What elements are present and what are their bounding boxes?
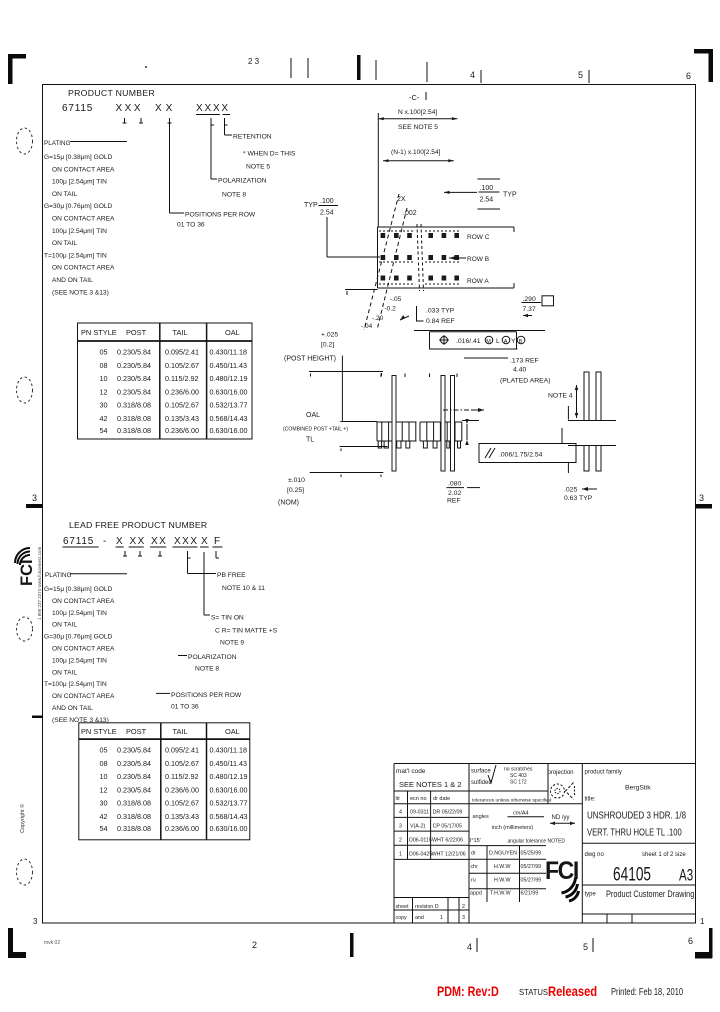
svg-text:PB FREE: PB FREE bbox=[217, 572, 246, 579]
top view dim (N-1) x .100 bbox=[383, 149, 454, 162]
svg-text:PLATING: PLATING bbox=[45, 572, 72, 579]
side detail pins lower bbox=[584, 446, 601, 472]
svg-text:0.568/14.43: 0.568/14.43 bbox=[210, 812, 248, 821]
front view body right group bbox=[420, 422, 462, 441]
svg-text:-C-: -C- bbox=[409, 93, 420, 102]
svg-text:M: M bbox=[486, 339, 491, 345]
svg-text:NOTE 10 & 11: NOTE 10 & 11 bbox=[222, 585, 265, 592]
margin small vertical text bbox=[37, 546, 42, 620]
svg-text:ON TAIL: ON TAIL bbox=[52, 240, 77, 247]
svg-text:appd: appd bbox=[470, 891, 482, 897]
svg-text:2.02: 2.02 bbox=[448, 490, 461, 497]
svg-text:SC 403: SC 403 bbox=[510, 773, 527, 779]
svg-text:.080: .080 bbox=[448, 481, 461, 488]
svg-text:WHT 12/21/06: WHT 12/21/06 bbox=[432, 852, 466, 858]
svg-text:0.236/6.00: 0.236/6.00 bbox=[165, 785, 199, 794]
svg-text:angles: angles bbox=[473, 814, 489, 820]
svg-text:0.230/5.84: 0.230/5.84 bbox=[117, 746, 151, 755]
svg-text:dwg no: dwg no bbox=[585, 852, 605, 858]
svg-text:DR 05/22/09: DR 05/22/09 bbox=[433, 810, 463, 816]
svg-text:0.430/11.18: 0.430/11.18 bbox=[210, 348, 247, 357]
svg-text:05/27/99: 05/27/99 bbox=[521, 878, 542, 884]
svg-text:ND /yy: ND /yy bbox=[552, 815, 570, 821]
svg-text:ON CONTACT AREA: ON CONTACT AREA bbox=[52, 216, 115, 223]
svg-text:product family: product family bbox=[585, 770, 622, 776]
svg-text:POST: POST bbox=[126, 328, 147, 337]
svg-text:D06-0425: D06-0425 bbox=[409, 852, 432, 858]
svg-text:1 800 237 2374 www.fciconnec: 1 800 237 2374 www.fciconnect.com bbox=[37, 546, 42, 620]
svg-text:0.115/2.92: 0.115/2.92 bbox=[165, 772, 198, 781]
svg-text:surface: surface bbox=[471, 769, 491, 775]
svg-text:0.230/5.84: 0.230/5.84 bbox=[117, 348, 151, 357]
svg-text:G=30μ [0.76μm] GOLD: G=30μ [0.76μm] GOLD bbox=[44, 634, 112, 641]
svg-text:ROW B: ROW B bbox=[467, 256, 489, 263]
svg-text:3: 3 bbox=[462, 915, 465, 921]
front view tails right group bbox=[423, 441, 460, 448]
svg-text:T=100μ [2.54μm] TIN: T=100μ [2.54μm] TIN bbox=[44, 252, 107, 259]
svg-text:3: 3 bbox=[399, 824, 402, 830]
svg-text:TAIL: TAIL bbox=[173, 727, 188, 736]
pin row A bbox=[381, 276, 459, 281]
retention leader bbox=[225, 125, 296, 171]
svg-text:PN STYLE: PN STYLE bbox=[81, 328, 117, 337]
svg-text:PLATING: PLATING bbox=[44, 140, 71, 147]
svg-text:7.37: 7.37 bbox=[523, 306, 536, 313]
svg-text:ROW A: ROW A bbox=[467, 278, 489, 285]
bottom extension line bbox=[414, 330, 545, 332]
svg-text:(N-1) x.100[2.54]: (N-1) x.100[2.54] bbox=[391, 149, 441, 156]
svg-text:.290: .290 bbox=[523, 296, 536, 303]
product family cell bbox=[585, 770, 652, 803]
top view pitch typ dim right bbox=[444, 179, 517, 209]
lead free product number heading bbox=[63, 520, 223, 547]
svg-text:100μ [2.54μm] TIN: 100μ [2.54μm] TIN bbox=[52, 228, 107, 235]
svg-text:10: 10 bbox=[100, 374, 108, 383]
svg-text:6: 6 bbox=[688, 936, 693, 946]
table 1 bbox=[78, 323, 253, 439]
svg-text:2.54: 2.54 bbox=[480, 197, 494, 204]
svg-text:+.025: +.025 bbox=[321, 332, 338, 339]
front view left dim labels bbox=[278, 332, 348, 507]
svg-text:ON TAIL: ON TAIL bbox=[52, 191, 77, 198]
front view tails left group bbox=[378, 441, 410, 448]
plating label lead free bbox=[45, 572, 127, 579]
product number heading bbox=[62, 66, 230, 115]
svg-text:.016/.41: .016/.41 bbox=[456, 338, 481, 345]
svg-text:PDM: Rev:D: PDM: Rev:D bbox=[437, 984, 499, 999]
svg-text:UNSHROUDED 3 HDR. 1/8: UNSHROUDED 3 HDR. 1/8 bbox=[587, 810, 686, 821]
svg-text:(NOM): (NOM) bbox=[278, 500, 299, 507]
svg-text:0.532/13.77: 0.532/13.77 bbox=[210, 401, 248, 410]
svg-text:XX: XX bbox=[130, 536, 146, 547]
positions per row lead free bbox=[156, 692, 242, 711]
svg-text:A3: A3 bbox=[679, 866, 693, 885]
svg-text:2.54: 2.54 bbox=[320, 210, 334, 217]
svg-text:sheet: sheet bbox=[396, 904, 409, 910]
front view dim lines bbox=[309, 356, 388, 477]
pin top tick marks bbox=[381, 374, 457, 378]
pin outline dashes bbox=[379, 231, 461, 284]
svg-text:[0.25]: [0.25] bbox=[287, 487, 304, 494]
sheet revision block text bbox=[396, 904, 466, 921]
svg-text:PRODUCT NUMBER: PRODUCT NUMBER bbox=[68, 88, 155, 98]
tin plating leader bbox=[204, 552, 278, 647]
right column lines bbox=[582, 843, 695, 923]
corner mark top-left bbox=[8, 54, 26, 84]
corner mark bottom-right bbox=[695, 928, 713, 959]
svg-text:NOTE 4: NOTE 4 bbox=[548, 393, 573, 400]
margin copyright vertical text bbox=[19, 804, 26, 833]
sign-off lines bbox=[469, 846, 546, 902]
svg-text:0.105/2.67: 0.105/2.67 bbox=[165, 401, 199, 410]
svg-text:F: F bbox=[214, 536, 220, 547]
svg-text:0.450/11.43: 0.450/11.43 bbox=[210, 361, 247, 370]
svg-text:SEE NOTE 5: SEE NOTE 5 bbox=[398, 124, 438, 131]
body right extension bbox=[462, 419, 479, 445]
svg-text:ON CONTACT AREA: ON CONTACT AREA bbox=[52, 598, 115, 605]
svg-text:0.230/5.84: 0.230/5.84 bbox=[117, 772, 151, 781]
svg-text:and: and bbox=[415, 915, 424, 921]
svg-text:05: 05 bbox=[100, 746, 108, 755]
svg-text:.006/1.75/2.54: .006/1.75/2.54 bbox=[499, 452, 543, 459]
svg-text:POLARIZATION: POLARIZATION bbox=[188, 654, 237, 661]
svg-text:0.318/8.08: 0.318/8.08 bbox=[117, 812, 151, 821]
svg-text:AND ON TAIL: AND ON TAIL bbox=[52, 277, 93, 284]
svg-text:X: X bbox=[116, 536, 123, 547]
svg-text:0.105/2.67: 0.105/2.67 bbox=[165, 799, 199, 808]
svg-text:.173 REF: .173 REF bbox=[510, 358, 539, 365]
svg-text:G=15μ [0.38μm] GOLD: G=15μ [0.38μm] GOLD bbox=[44, 586, 112, 593]
corner mark bottom-left bbox=[8, 928, 26, 958]
svg-text:L: L bbox=[496, 338, 500, 345]
side detail pins upper bbox=[584, 372, 601, 421]
svg-text:NOTE 9: NOTE 9 bbox=[220, 640, 244, 647]
svg-text:ON CONTACT AREA: ON CONTACT AREA bbox=[52, 166, 115, 173]
svg-text:S= TIN ON: S= TIN ON bbox=[211, 615, 244, 622]
svg-text:(SEE NOTE 3 &13): (SEE NOTE 3 &13) bbox=[52, 289, 109, 296]
svg-text:0.318/8.08: 0.318/8.08 bbox=[117, 414, 151, 423]
title block outline bbox=[394, 764, 696, 924]
svg-text:PN STYLE: PN STYLE bbox=[81, 727, 117, 736]
bottom edge zone labels bbox=[33, 917, 705, 957]
svg-text:0.318/8.08: 0.318/8.08 bbox=[117, 799, 151, 808]
svg-text:1: 1 bbox=[399, 852, 402, 858]
svg-text:0.236/6.00: 0.236/6.00 bbox=[165, 426, 199, 435]
svg-text:0.230/5.84: 0.230/5.84 bbox=[117, 759, 151, 768]
svg-text:OAL: OAL bbox=[306, 412, 320, 419]
svg-text:0.568/14.43: 0.568/14.43 bbox=[210, 414, 248, 423]
mating level dashed line bbox=[443, 408, 484, 412]
svg-text:01 TO 36: 01 TO 36 bbox=[177, 222, 205, 229]
svg-text:0.318/8.08: 0.318/8.08 bbox=[117, 824, 151, 833]
svg-text:RETENTION: RETENTION bbox=[233, 134, 272, 141]
svg-text:G=15μ [0.38μm] GOLD: G=15μ [0.38μm] GOLD bbox=[44, 154, 112, 161]
svg-text:XXX: XXX bbox=[174, 536, 199, 547]
svg-text:0.230/5.84: 0.230/5.84 bbox=[117, 387, 151, 396]
svg-text:(PLATED AREA): (PLATED AREA) bbox=[500, 378, 551, 385]
tail typ dim bbox=[417, 306, 455, 325]
svg-text:-: - bbox=[103, 536, 106, 547]
svg-text:T=100μ [2.54μm] TIN: T=100μ [2.54μm] TIN bbox=[44, 681, 107, 688]
svg-text:type: type bbox=[585, 892, 597, 898]
svg-text:XXX: XXX bbox=[116, 103, 144, 114]
svg-text:.100: .100 bbox=[320, 198, 334, 205]
margin FCI logo rotated bbox=[15, 548, 36, 586]
pin field break lines bbox=[417, 224, 424, 291]
svg-text:0.105/2.67: 0.105/2.67 bbox=[165, 361, 199, 370]
svg-text:1: 1 bbox=[440, 915, 443, 921]
svg-text:5: 5 bbox=[578, 70, 583, 80]
svg-text:C R= TIN MATTE +S: C R= TIN MATTE +S bbox=[215, 628, 278, 635]
product number group ticks bbox=[123, 118, 228, 125]
plated area dim bbox=[464, 358, 551, 385]
svg-text:no scratches: no scratches bbox=[504, 767, 533, 773]
svg-text:3: 3 bbox=[33, 917, 38, 926]
svg-text:TAIL: TAIL bbox=[173, 328, 188, 337]
surface cell bbox=[471, 765, 533, 786]
svg-text:0.095/2.41: 0.095/2.41 bbox=[165, 348, 199, 357]
svg-text:0.480/12.19: 0.480/12.19 bbox=[210, 374, 248, 383]
svg-text:0.230/5.84: 0.230/5.84 bbox=[117, 374, 151, 383]
front view body left group bbox=[377, 422, 417, 441]
svg-text:0.630/16.00: 0.630/16.00 bbox=[210, 785, 248, 794]
side detail bottom dims bbox=[564, 487, 597, 503]
svg-text:dr date: dr date bbox=[433, 796, 450, 802]
right edge zone label and fold mark bbox=[696, 493, 712, 509]
svg-text:(COMBINED POST +TAIL +): (COMBINED POST +TAIL +) bbox=[283, 426, 348, 432]
svg-text:0.105/2.67: 0.105/2.67 bbox=[165, 759, 199, 768]
svg-text:0.532/13.77: 0.532/13.77 bbox=[210, 799, 248, 808]
svg-text:projection: projection bbox=[548, 770, 574, 776]
svg-text:(POST HEIGHT): (POST HEIGHT) bbox=[284, 356, 336, 363]
svg-text:ROW C: ROW C bbox=[467, 234, 490, 241]
drawing title bbox=[587, 810, 686, 838]
svg-text:XXXX: XXXX bbox=[196, 103, 230, 114]
scale cell bbox=[468, 811, 575, 845]
top view 2X and .002 labels bbox=[397, 196, 417, 217]
pin row C bbox=[381, 233, 459, 238]
svg-text:TYP: TYP bbox=[503, 192, 517, 199]
row pitch typ dim left bbox=[304, 198, 380, 257]
svg-text:TL: TL bbox=[306, 437, 314, 444]
svg-text:LEAD FREE PRODUCT NUMBER: LEAD FREE PRODUCT NUMBER bbox=[69, 520, 207, 530]
punch hole ellipses bbox=[17, 128, 33, 885]
svg-text:G=30μ [0.76μm] GOLD: G=30μ [0.76μm] GOLD bbox=[44, 203, 112, 210]
svg-text:.033 TYP: .033 TYP bbox=[426, 308, 455, 315]
pin field bottom left extension bbox=[345, 290, 378, 296]
svg-text:ON TAIL: ON TAIL bbox=[52, 669, 77, 676]
svg-text:6/21/99: 6/21/99 bbox=[521, 891, 539, 897]
svg-text:ltr: ltr bbox=[396, 796, 401, 802]
svg-text:NOTE 5: NOTE 5 bbox=[246, 164, 270, 171]
svg-text:67115: 67115 bbox=[63, 536, 94, 547]
FCI title block logo bbox=[545, 857, 579, 901]
revision table lines bbox=[394, 791, 469, 859]
svg-text:A: A bbox=[504, 339, 508, 345]
note 4 label bbox=[548, 385, 578, 418]
svg-text:inch (millimeters): inch (millimeters) bbox=[492, 825, 534, 831]
true position feature control frame bbox=[429, 332, 525, 349]
svg-text:12: 12 bbox=[100, 387, 108, 396]
svg-text:SEE NOTES 1 & 2: SEE NOTES 1 & 2 bbox=[399, 780, 462, 789]
svg-text:100μ [2.54μm] TIN: 100μ [2.54μm] TIN bbox=[52, 657, 107, 664]
svg-text:0.095/2.41: 0.095/2.41 bbox=[165, 746, 199, 755]
side detail small extensions bbox=[562, 406, 568, 473]
corner mark top-right bbox=[694, 49, 713, 82]
svg-text:X: X bbox=[201, 536, 208, 547]
svg-text:Copyright ©: Copyright © bbox=[19, 804, 26, 833]
svg-text:10: 10 bbox=[100, 772, 108, 781]
svg-text:2 3: 2 3 bbox=[248, 57, 260, 66]
svg-text:POLARIZATION: POLARIZATION bbox=[218, 178, 267, 185]
svg-text:30: 30 bbox=[100, 799, 108, 808]
svg-text:0.318/8.08: 0.318/8.08 bbox=[117, 426, 151, 435]
svg-text:ON CONTACT AREA: ON CONTACT AREA bbox=[52, 693, 115, 700]
long pin 2 bbox=[441, 376, 445, 472]
svg-text:H.W.W: H.W.W bbox=[494, 878, 510, 884]
svg-text:XX: XX bbox=[155, 103, 176, 114]
svg-text:ru: ru bbox=[471, 878, 476, 884]
svg-text:ON CONTACT AREA: ON CONTACT AREA bbox=[52, 646, 115, 653]
svg-text:mat'l code: mat'l code bbox=[396, 768, 426, 775]
svg-text:08: 08 bbox=[100, 759, 108, 768]
top view dim N x .100 bbox=[378, 109, 457, 131]
plating notes lead free bbox=[44, 586, 115, 724]
svg-text:.025: .025 bbox=[564, 487, 577, 494]
svg-text:0.450/11.43: 0.450/11.43 bbox=[210, 759, 247, 768]
left edge zone label and fold mark bbox=[26, 493, 43, 718]
svg-text:2: 2 bbox=[462, 904, 465, 910]
svg-text:30: 30 bbox=[100, 401, 108, 410]
svg-text:0.630/16.00: 0.630/16.00 bbox=[210, 824, 248, 833]
parallelism feature control frame bbox=[479, 444, 576, 463]
svg-text:STATUS:: STATUS: bbox=[519, 988, 550, 997]
pb free leader bbox=[188, 558, 266, 592]
svg-text:67115: 67115 bbox=[62, 103, 93, 114]
svg-text:54: 54 bbox=[100, 426, 108, 435]
side detail board lines bbox=[568, 421, 616, 446]
svg-text:Released: Released bbox=[548, 984, 597, 999]
polarization leader section1 bbox=[211, 125, 267, 199]
svg-text:POSITIONS PER ROW: POSITIONS PER ROW bbox=[185, 212, 256, 219]
svg-text:revision D: revision D bbox=[415, 904, 439, 910]
svg-text:0.230/5.84: 0.230/5.84 bbox=[117, 785, 151, 794]
svg-text:64105: 64105 bbox=[613, 863, 651, 885]
svg-text:POSITIONS PER ROW: POSITIONS PER ROW bbox=[171, 692, 242, 699]
svg-text:POST: POST bbox=[126, 727, 147, 736]
svg-text:angular tolerance NOTED: angular tolerance NOTED bbox=[508, 839, 566, 845]
svg-text:BergStik: BergStik bbox=[625, 785, 651, 792]
projection cell bbox=[548, 770, 575, 800]
svg-text:ON CONTACT AREA: ON CONTACT AREA bbox=[52, 265, 115, 272]
svg-text:4: 4 bbox=[467, 942, 472, 952]
svg-text:sheet 1 of 2 size: sheet 1 of 2 size bbox=[642, 852, 686, 858]
tolerance strip bbox=[472, 798, 552, 804]
PDM red status line bbox=[437, 984, 683, 999]
revision header bbox=[396, 796, 451, 802]
dwg no cell bbox=[585, 852, 694, 885]
svg-text:05/27/99: 05/27/99 bbox=[521, 864, 542, 870]
svg-text:12: 12 bbox=[100, 785, 108, 794]
svg-text:0°15': 0°15' bbox=[468, 838, 480, 844]
pin row B bbox=[381, 255, 459, 260]
polarization leader lead free bbox=[178, 654, 237, 673]
svg-text:0.236/6.00: 0.236/6.00 bbox=[165, 824, 199, 833]
svg-text:XX: XX bbox=[151, 536, 167, 547]
svg-text:D.NGUYEN: D.NGUYEN bbox=[489, 851, 517, 857]
svg-text:TYP: TYP bbox=[304, 202, 318, 209]
svg-text:N x.100[2.54]: N x.100[2.54] bbox=[398, 109, 437, 116]
svg-text:100μ [2.54μm] TIN: 100μ [2.54μm] TIN bbox=[52, 179, 107, 186]
table 2 bbox=[79, 723, 250, 840]
svg-text:-.05: -.05 bbox=[390, 296, 402, 303]
long pin 1 bbox=[392, 376, 396, 472]
svg-text:2: 2 bbox=[399, 838, 402, 844]
svg-text:0.630/16.00: 0.630/16.00 bbox=[210, 426, 248, 435]
right width dim bbox=[522, 296, 554, 318]
polarization dashed diagonals bbox=[364, 194, 407, 330]
svg-text:0.63 TYP: 0.63 TYP bbox=[564, 495, 593, 502]
svg-text:0.430/11.18: 0.430/11.18 bbox=[210, 746, 247, 755]
svg-text:05/25/99: 05/25/99 bbox=[521, 851, 542, 857]
svg-text:Y: Y bbox=[511, 338, 516, 345]
plating notes section1 bbox=[44, 154, 115, 296]
svg-text:0.84 REF: 0.84 REF bbox=[426, 318, 455, 325]
svg-text:cm/A4: cm/A4 bbox=[513, 811, 529, 817]
svg-text:08: 08 bbox=[100, 361, 108, 370]
svg-text:NOTE 8: NOTE 8 bbox=[222, 192, 246, 199]
svg-text:05: 05 bbox=[100, 348, 108, 357]
svg-text:6: 6 bbox=[686, 71, 691, 81]
svg-text:VERT. THRU HOLE TL .100: VERT. THRU HOLE TL .100 bbox=[587, 826, 682, 837]
svg-text:54: 54 bbox=[100, 824, 108, 833]
svg-text:OAL: OAL bbox=[225, 727, 240, 736]
svg-text:0.135/3.43: 0.135/3.43 bbox=[165, 414, 199, 423]
svg-text:-.20: -.20 bbox=[372, 315, 384, 322]
svg-text:WHT 6/22/06: WHT 6/22/06 bbox=[432, 838, 463, 844]
small arrow bbox=[400, 315, 409, 320]
plating label section1 bbox=[44, 140, 127, 147]
svg-text:42: 42 bbox=[100, 414, 108, 423]
svg-text:0.480/12.19: 0.480/12.19 bbox=[210, 772, 248, 781]
sheet revision block lines bbox=[394, 898, 469, 924]
sign-off rows bbox=[470, 851, 541, 897]
svg-text:Product Customer Drawing: Product Customer Drawing bbox=[606, 888, 695, 899]
svg-text:D06-0115: D06-0115 bbox=[409, 838, 432, 844]
svg-text:B: B bbox=[519, 339, 523, 345]
svg-text:01 TO 36: 01 TO 36 bbox=[171, 704, 199, 711]
svg-text:-.04: -.04 bbox=[361, 323, 373, 330]
positions per row leader section1 bbox=[170, 123, 256, 229]
svg-text:REF: REF bbox=[447, 498, 461, 505]
svg-text:0.115/2.92: 0.115/2.92 bbox=[165, 374, 198, 383]
svg-text:0.135/3.43: 0.135/3.43 bbox=[165, 812, 199, 821]
svg-text:[0.2]: [0.2] bbox=[321, 342, 334, 349]
sheet frame border bbox=[43, 85, 696, 924]
long pin 3 bbox=[451, 376, 455, 472]
svg-text:3: 3 bbox=[32, 493, 37, 503]
svg-text:AND ON TAIL: AND ON TAIL bbox=[52, 705, 93, 712]
svg-text:H.W.W: H.W.W bbox=[494, 864, 510, 870]
type cell bbox=[585, 888, 695, 899]
svg-text:4: 4 bbox=[470, 70, 475, 80]
svg-text:ON TAIL: ON TAIL bbox=[52, 622, 77, 629]
row labels bbox=[467, 234, 490, 285]
top view pin field outline bbox=[378, 227, 515, 288]
svg-text:dr: dr bbox=[471, 851, 476, 857]
svg-text:CP 05/17/05: CP 05/17/05 bbox=[433, 824, 462, 830]
front view bottom dim bbox=[447, 481, 481, 505]
